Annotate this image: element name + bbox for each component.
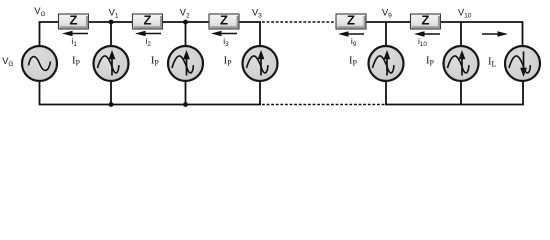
current source IP at V9 (369, 46, 404, 81)
junction dot node V2 bottom (183, 102, 188, 107)
current arrow i9 (338, 31, 364, 48)
junction dot node V1 bottom (109, 102, 114, 107)
current source IP at V10 (444, 46, 479, 81)
current arrow i1 (62, 31, 88, 48)
svg-text:Z: Z (422, 13, 430, 28)
svg-text:Z: Z (347, 13, 355, 28)
impedance Z2 (133, 13, 163, 29)
current source IP at V2 (168, 46, 203, 81)
impedance Z3 (209, 13, 239, 29)
current source IP at V1 (94, 46, 129, 81)
current arrow i3 (211, 31, 237, 48)
voltage source VG (22, 46, 57, 81)
wire riser node V1 bottom (110, 80, 112, 105)
wire riser node V9 bottom (385, 80, 387, 105)
impedance Z1 (59, 13, 89, 29)
current arrow i2 (135, 31, 161, 48)
current arrow into load (right) (482, 31, 508, 37)
wire riser node V3 top (259, 22, 261, 46)
wire bottom rail right solid segment (385, 81, 523, 105)
wire riser node V3 bottom (259, 80, 261, 105)
wire bottom rail dashed segment (262, 104, 385, 106)
wire riser node V2 bottom (185, 80, 187, 105)
impedance Z10 (411, 13, 441, 29)
svg-text:Z: Z (70, 13, 78, 28)
wire top rail left solid segment (40, 22, 262, 46)
wire riser node V9 top (385, 22, 387, 46)
wire riser node V10 top (460, 22, 462, 46)
current source IP at V3 (243, 46, 278, 81)
wire riser node V10 bottom (460, 80, 462, 105)
svg-text:Z: Z (144, 13, 152, 28)
wire top rail right solid segment (336, 22, 523, 46)
wire top rail dashed segment (262, 21, 336, 23)
current source IL (load) (505, 46, 540, 81)
wire riser node V1 top (110, 22, 112, 46)
wire bottom rail left solid segment (40, 81, 262, 105)
junction dot node V1 top (109, 20, 114, 25)
wire riser node V2 top (185, 22, 187, 46)
current arrow i10 (414, 31, 440, 48)
impedance Z9 (336, 13, 366, 29)
svg-text:Z: Z (220, 13, 228, 28)
junction dot node V2 top (183, 20, 188, 25)
